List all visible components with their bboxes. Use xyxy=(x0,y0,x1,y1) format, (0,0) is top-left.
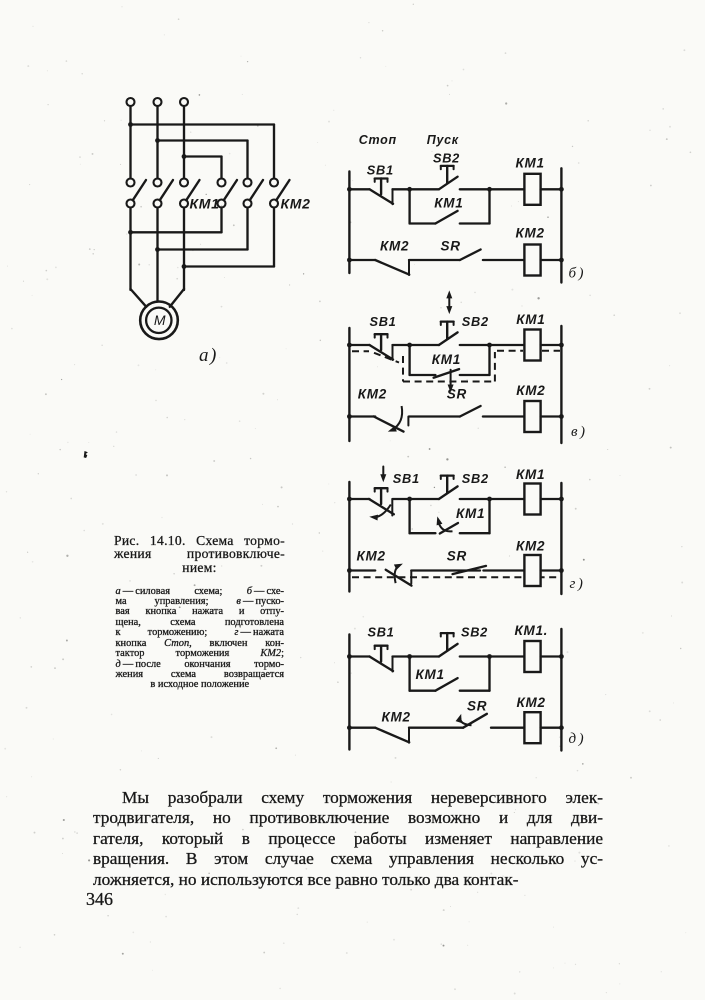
svg-text:Стоп: Стоп xyxy=(359,133,397,147)
wire SR to coil KM2 (v) xyxy=(483,415,525,417)
svg-text:SR: SR xyxy=(467,699,487,714)
wire motor lead right xyxy=(170,289,184,307)
label КМ1 (g) xyxy=(456,506,485,521)
wire SB1 to node (g) xyxy=(393,498,439,500)
node right-bottom (d) xyxy=(559,725,564,730)
wire KM2 to SR (d) xyxy=(409,727,463,729)
wire SB1 to node (v) xyxy=(393,344,439,346)
button SB2 blade (v) xyxy=(439,332,458,345)
label SB2 (d) xyxy=(461,625,488,640)
contact KM2 closed (d) xyxy=(375,728,409,743)
button SB2 blade (b) xyxy=(439,177,458,190)
button SB1 blade pressed (g) xyxy=(369,499,394,516)
wire branch bottom-right (d) xyxy=(460,690,490,692)
coil KM2 (d) xyxy=(524,712,540,743)
wire left rail (b) xyxy=(348,172,350,274)
svg-text:Пуск: Пуск xyxy=(427,133,459,147)
svg-text:КМ2: КМ2 xyxy=(517,695,546,710)
svg-text:КМ2: КМ2 xyxy=(380,239,409,254)
wire right rail (g) xyxy=(560,483,562,594)
svg-text:КМ1: КМ1 xyxy=(434,196,463,211)
label КМ2 (d) xyxy=(382,710,411,725)
wire coil KM2 to rail (g) xyxy=(541,569,562,571)
wire branch up (b) xyxy=(488,189,490,223)
wire SR to coil KM2 (d) xyxy=(491,727,524,729)
label КМ2 (v) xyxy=(516,383,545,398)
wire contact4 cross to L1 xyxy=(131,208,222,233)
svg-text:КМ1: КМ1 xyxy=(416,667,445,682)
node left-bottom (b) xyxy=(347,258,352,263)
wire branch up (g) xyxy=(488,499,490,533)
wire KM2 to SR (b) xyxy=(409,259,460,261)
wire phase L3 drop xyxy=(183,106,185,179)
arrow SB1 opening (g) xyxy=(369,505,391,521)
wire contact3 down xyxy=(183,208,185,291)
svg-text:SB1: SB1 xyxy=(367,163,394,178)
svg-text:д): д) xyxy=(569,731,587,747)
wire L3 to contact 4 xyxy=(184,157,222,179)
wire branch bottom-left (v) xyxy=(410,374,436,376)
wire rail to KM2 contact (v) xyxy=(349,415,375,417)
label КМ1. (d) xyxy=(515,623,549,638)
wire phase L1 drop xyxy=(129,106,131,179)
node branch-left (g) xyxy=(407,497,412,502)
button SB2 blade (d) xyxy=(439,644,458,657)
node L2 tap xyxy=(155,138,160,143)
wire motor lead left xyxy=(131,289,147,307)
wire L1 to contact 6 xyxy=(131,125,275,179)
node branch-left (d) xyxy=(407,654,412,659)
wire SR to coil KM2 (g) xyxy=(483,569,524,571)
figure caption title xyxy=(114,534,285,575)
wire rail to SB1 (b) xyxy=(349,188,369,190)
node right-bottom (g) xyxy=(559,568,564,573)
wire contact5 cross to L2 xyxy=(158,208,248,250)
wire left rail (v) xyxy=(348,328,350,441)
wire branch up (d) xyxy=(488,657,490,691)
label КМ2 (g) xyxy=(357,549,386,564)
node branch-right (b) xyxy=(487,187,492,192)
node A2 xyxy=(155,247,160,252)
wire left rail (g) xyxy=(348,482,350,592)
label SR (g) xyxy=(447,549,467,564)
button SB1 actuator (g) xyxy=(375,488,388,504)
label SR (b) xyxy=(441,239,461,254)
contact SR closed (g) xyxy=(453,566,487,574)
wire branch bottom-left (b) xyxy=(410,222,436,224)
svg-text:КМ2: КМ2 xyxy=(516,383,545,398)
svg-text:а): а) xyxy=(199,345,218,366)
wire SB1 to node (b) xyxy=(393,188,439,190)
contact KM1 aux open (b) xyxy=(435,211,457,224)
coil KM2 (b) xyxy=(524,245,540,276)
wire SR to coil KM2 (b) xyxy=(483,259,525,261)
node L3 tap xyxy=(182,154,187,159)
label КМ2 (b) xyxy=(380,239,409,254)
node branch-left (v) xyxy=(407,343,412,348)
node right-top (g) xyxy=(559,497,564,502)
wire rail to SB1 (g) xyxy=(349,498,369,500)
wire KM2 to SR (g) xyxy=(411,569,480,571)
node L1 tap xyxy=(128,122,133,127)
contact KM1.1 xyxy=(127,179,147,208)
contact KM2.1 xyxy=(218,179,238,208)
svg-text:SB2: SB2 xyxy=(461,625,488,640)
contact SR open (b) xyxy=(460,250,481,261)
svg-text:КМ1.: КМ1. xyxy=(515,623,549,638)
terminal L2 xyxy=(154,98,162,106)
node right-top (b) xyxy=(559,187,564,192)
svg-text:SB1: SB1 xyxy=(368,625,395,640)
wire right rail (d) xyxy=(560,629,562,751)
figure caption body xyxy=(116,587,285,691)
wire phase L2 drop xyxy=(156,106,158,179)
wire branch bottom-left (d) xyxy=(410,690,436,692)
label SB1 (v) xyxy=(370,314,397,329)
contact KM2 closed (b) xyxy=(375,260,409,275)
label КМ1 (b) xyxy=(516,156,545,171)
wire branch down (v) xyxy=(408,345,410,375)
arrow KM2 closing (g) xyxy=(394,564,403,584)
label Стоп (b) xyxy=(359,133,397,147)
contact KM2.3 xyxy=(270,179,290,208)
dashed current path (v) xyxy=(352,351,560,382)
contact KM1 aux opening (g) xyxy=(440,523,458,534)
label КМ2 (b) xyxy=(516,226,545,241)
svg-text:КМ2: КМ2 xyxy=(281,196,311,212)
wire SB1 to node (d) xyxy=(393,655,439,657)
page number xyxy=(86,889,113,910)
svg-text:SB1: SB1 xyxy=(393,471,420,486)
contact KM2.2 xyxy=(244,179,264,208)
label КМ1 (b) xyxy=(434,196,463,211)
label SB2 (b) xyxy=(433,151,460,166)
coil KM2 (v) xyxy=(524,401,540,432)
contact KM2 closing (g) xyxy=(386,570,412,586)
label КМ1 (g) xyxy=(516,467,545,482)
svg-text:КМ1: КМ1 xyxy=(516,312,545,327)
button SB1 actuator (d) xyxy=(375,646,388,662)
wire branch down (b) xyxy=(408,189,410,223)
wire rail to SB1 (d) xyxy=(349,655,369,657)
wire right rail (v) xyxy=(560,326,562,443)
arrow SB2 released (v) xyxy=(446,290,452,314)
node left-bottom (g) xyxy=(347,568,352,573)
svg-text:КМ2: КМ2 xyxy=(358,387,387,402)
svg-text:SR: SR xyxy=(441,239,461,254)
label б) xyxy=(569,266,587,282)
wire branch up (v) xyxy=(488,345,490,375)
svg-text:SB2: SB2 xyxy=(462,314,489,329)
dashed current path (g) xyxy=(352,576,561,578)
wire contact1 down xyxy=(129,208,131,291)
coil KM1 (d) xyxy=(524,641,540,672)
arrow KM2 opening (v) xyxy=(388,406,402,432)
wire SB2 to coil KM1 (d) xyxy=(460,655,525,657)
label SB1 (b) xyxy=(367,163,394,178)
node right-bottom (v) xyxy=(559,414,564,419)
wire branch bottom-right (b) xyxy=(460,222,490,224)
svg-text:SB2: SB2 xyxy=(433,151,460,166)
button SB2 actuator (g) xyxy=(441,476,454,493)
wire coil KM2 to rail (d) xyxy=(541,727,562,729)
svg-text:в): в) xyxy=(571,424,588,440)
contact KM2 opening (v) xyxy=(374,417,409,432)
node right-bottom (b) xyxy=(559,258,564,263)
wire rail to KM2 contact (d) xyxy=(349,727,375,729)
label в) xyxy=(571,424,588,440)
wire SB2 to coil KM1 (g) xyxy=(460,498,525,500)
button SB1 actuator (b) xyxy=(375,179,388,195)
wire contact2 down xyxy=(156,208,158,301)
wire L2 to contact 5 xyxy=(158,141,248,179)
label SB1 (g) xyxy=(393,471,420,486)
node left-top (g) xyxy=(347,497,352,502)
node branch-right (g) xyxy=(487,497,492,502)
node A1 xyxy=(128,230,133,235)
wire rail to KM2 contact (b) xyxy=(349,259,375,261)
wire SB2 to coil KM1 (b) xyxy=(460,188,525,190)
wire branch down (d) xyxy=(408,657,410,691)
label SB2 (v) xyxy=(462,314,489,329)
wire coil KM1 to rail (b) xyxy=(541,188,562,190)
arrow SR opening (d) xyxy=(456,714,472,725)
button SB2 actuator (v) xyxy=(441,322,454,339)
node left-bottom (d) xyxy=(347,725,352,730)
wire rail to SB1 (v) xyxy=(349,344,369,346)
svg-text:КМ2: КМ2 xyxy=(516,226,545,241)
wire rail to KM2 contact (g) xyxy=(349,569,375,571)
button SB1 blade (v) xyxy=(370,345,394,360)
button SB1 blade (b) xyxy=(370,189,394,204)
body paragraph xyxy=(93,788,603,890)
svg-text:КМ1: КМ1 xyxy=(190,196,220,212)
label д) xyxy=(569,731,587,747)
node right-top (d) xyxy=(559,654,564,659)
wire left rail (d) xyxy=(348,635,350,750)
svg-text:М: М xyxy=(154,312,166,328)
label Пуск (b) xyxy=(427,133,459,147)
node right-top (v) xyxy=(559,343,564,348)
wire branch bottom-left (g) xyxy=(410,532,436,534)
arrow KM1 aux (v) xyxy=(448,370,454,393)
svg-text:КМ1: КМ1 xyxy=(432,352,461,367)
motor M xyxy=(140,302,178,340)
label KM2 (power contacts) xyxy=(281,196,311,212)
wire right rail (b) xyxy=(560,168,562,282)
button SB1 actuator (v) xyxy=(375,334,388,350)
node left-top (b) xyxy=(347,187,352,192)
svg-text:SB1: SB1 xyxy=(370,314,397,329)
svg-text:г): г) xyxy=(570,576,586,592)
button SB1 blade (d) xyxy=(370,657,394,672)
coil KM1 (v) xyxy=(524,330,540,361)
node A3 xyxy=(182,264,187,269)
label КМ2 (g) xyxy=(516,539,545,554)
wire branch bottom-right (v) xyxy=(460,374,490,376)
label г) xyxy=(570,576,586,592)
label a) xyxy=(199,345,218,366)
contact KM1 aux closed (v) xyxy=(434,369,460,378)
contact KM1.2 xyxy=(154,179,174,208)
svg-text:SR: SR xyxy=(447,549,467,564)
node left-top (v) xyxy=(347,343,352,348)
svg-text:КМ1: КМ1 xyxy=(516,467,545,482)
node branch-left (b) xyxy=(407,187,412,192)
node left-top (d) xyxy=(347,654,352,659)
arrow SB1 press (g) xyxy=(380,467,386,483)
wire branch down (g) xyxy=(408,499,410,533)
label КМ1 (d) xyxy=(416,667,445,682)
wire SB2 to coil KM1 (v) xyxy=(460,344,525,346)
svg-text:КМ2: КМ2 xyxy=(382,710,411,725)
label SR (d) xyxy=(467,699,487,714)
wire KM2 to SR (v) xyxy=(409,415,460,417)
button SB2 blade (g) xyxy=(439,486,458,499)
node branch-right (d) xyxy=(487,654,492,659)
ink speck xyxy=(84,451,88,458)
label КМ2 (v) xyxy=(358,387,387,402)
label SB2 (g) xyxy=(462,471,489,486)
svg-text:SB2: SB2 xyxy=(462,471,489,486)
svg-text:КМ2: КМ2 xyxy=(516,539,545,554)
label KM1 (power contacts) xyxy=(190,196,220,212)
label SB1 (d) xyxy=(368,625,395,640)
terminal L3 xyxy=(180,98,188,106)
svg-text:КМ1: КМ1 xyxy=(456,506,485,521)
svg-text:SR: SR xyxy=(447,387,467,402)
wire coil KM1 to rail (g) xyxy=(541,498,562,500)
node left-bottom (v) xyxy=(347,414,352,419)
contact SR opening (d) xyxy=(463,714,487,728)
node branch-right (v) xyxy=(487,343,492,348)
button SB2 actuator (b) xyxy=(441,166,454,183)
coil KM1 (b) xyxy=(524,174,540,205)
coil KM1 (g) xyxy=(524,484,540,515)
svg-text:КМ1: КМ1 xyxy=(516,156,545,171)
wire contact6 cross to L3 xyxy=(184,208,274,267)
label SR (v) xyxy=(447,387,467,402)
label КМ1 (v) xyxy=(516,312,545,327)
contact SR open (v) xyxy=(460,406,481,417)
label КМ1 (v) xyxy=(432,352,461,367)
contact KM1.3 xyxy=(180,179,200,208)
wire coil KM1 to rail (d) xyxy=(541,655,562,657)
label КМ2 (d) xyxy=(517,695,546,710)
wire coil KM1 to rail (v) xyxy=(541,344,562,346)
coil KM2 (g) xyxy=(524,555,540,586)
wire branch bottom-right (g) xyxy=(460,532,490,534)
contact KM1 aux open (d) xyxy=(435,678,457,691)
svg-text:б): б) xyxy=(569,266,587,282)
arrow KM1 aux opening (g) xyxy=(437,516,453,531)
wire coil KM2 to rail (b) xyxy=(541,259,562,261)
button SB2 actuator (d) xyxy=(441,633,454,650)
wire coil KM2 to rail (v) xyxy=(541,415,562,417)
svg-text:КМ2: КМ2 xyxy=(357,549,386,564)
terminal L1 xyxy=(127,98,135,106)
